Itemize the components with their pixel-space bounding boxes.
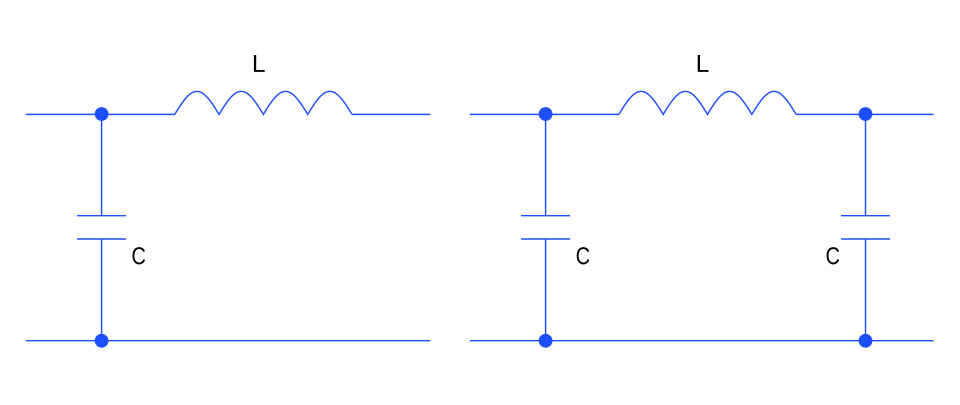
node junction dot bottom-middle: [539, 334, 553, 348]
label C (right capacitor): [827, 247, 840, 264]
wire top rail right segment: [796, 113, 934, 115]
inductor L1 (4 humps): [175, 91, 352, 114]
label L (right inductor): [698, 55, 709, 72]
wire top rail right segment: [352, 113, 430, 115]
node junction dot top-right: [859, 107, 873, 121]
wire top rail left segment: [26, 113, 175, 115]
label C (left capacitor): [133, 247, 146, 264]
node junction dot bottom-left: [95, 334, 109, 348]
wire vertical from capacitor to bottom node: [101, 239, 103, 341]
label L (left inductor): [254, 55, 265, 72]
wire vertical output capacitor top lead: [865, 114, 867, 215]
node junction dot top-middle: [539, 107, 553, 121]
wire vertical input capacitor bottom lead: [545, 239, 547, 341]
label C (middle capacitor): [577, 247, 590, 264]
wire vertical from top node to capacitor: [101, 114, 103, 215]
capacitor C1 plates: [77, 216, 126, 239]
inductor L2 (4 humps): [619, 91, 796, 114]
wire bottom rail: [470, 340, 934, 342]
node junction dot bottom-right: [859, 334, 873, 348]
wire vertical output capacitor bottom lead: [865, 239, 867, 341]
node junction dot top-left: [95, 107, 109, 121]
wire top rail left segment: [470, 113, 619, 115]
capacitor C3 plates: [841, 216, 890, 239]
capacitor C2 plates: [521, 216, 570, 239]
wire bottom rail: [26, 340, 430, 342]
wire vertical input capacitor top lead: [545, 114, 547, 215]
